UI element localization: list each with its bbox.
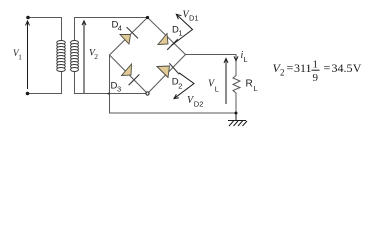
diode bridge edge T-R — [148, 18, 186, 55]
wire left corner to bottom rail — [110, 55, 237, 113]
diode D4 — [120, 27, 138, 44]
svg-text:1: 1 — [178, 28, 182, 37]
arrow VD2 — [174, 73, 194, 99]
node RL bottom junction — [235, 112, 238, 115]
svg-text:R: R — [246, 79, 253, 90]
diode D2 — [157, 63, 179, 77]
svg-text:2: 2 — [178, 82, 182, 91]
svg-text:4: 4 — [118, 24, 122, 33]
svg-text:D2: D2 — [194, 100, 204, 109]
diode D1 — [158, 34, 178, 50]
svg-text:34.5: 34.5 — [332, 61, 353, 75]
node bottom-left V1 terminal — [26, 92, 30, 96]
svg-text:·: · — [307, 61, 311, 75]
svg-text:1: 1 — [313, 59, 319, 71]
diode D3 — [122, 64, 140, 85]
svg-text:V: V — [353, 61, 362, 75]
arrow VD1 — [171, 14, 192, 45]
node top-left V1 terminal — [26, 16, 30, 20]
wire secondary top — [75, 18, 148, 42]
svg-text:L: L — [244, 55, 248, 64]
svg-text:D1: D1 — [189, 14, 199, 23]
wire secondary bottom — [75, 71, 148, 94]
svg-text:3: 3 — [117, 85, 121, 94]
svg-text:1: 1 — [18, 54, 22, 62]
node B bridge bottom — [146, 92, 149, 95]
wire primary bottom — [28, 71, 62, 94]
wire below resistor — [235, 95, 237, 113]
svg-text:L: L — [254, 84, 258, 93]
diode bridge edge L-B — [110, 55, 148, 94]
formula V2 = 311 * 1/9 = 34.5 V — [273, 59, 362, 85]
transformer primary winding — [57, 41, 66, 72]
svg-text:9: 9 — [313, 72, 319, 84]
transformer secondary winding — [71, 41, 79, 72]
arrow VL — [224, 59, 228, 105]
ground — [228, 113, 247, 126]
svg-text:=: = — [324, 61, 331, 75]
svg-text:L: L — [215, 85, 219, 94]
wire primary top — [28, 18, 62, 42]
wire output rail — [186, 55, 237, 76]
junction tick at crossing — [107, 92, 110, 95]
node T bridge top — [146, 16, 149, 19]
svg-text:=: = — [287, 61, 294, 75]
diode bridge edge L-T — [110, 18, 148, 56]
arrow iL current — [234, 56, 238, 60]
svg-text:2: 2 — [94, 52, 98, 61]
svg-text:2: 2 — [280, 68, 285, 78]
resistor RL — [233, 76, 240, 96]
arrow V1 — [26, 21, 30, 89]
arrow V2 — [82, 21, 86, 93]
diode bridge edge B-R — [148, 55, 186, 94]
